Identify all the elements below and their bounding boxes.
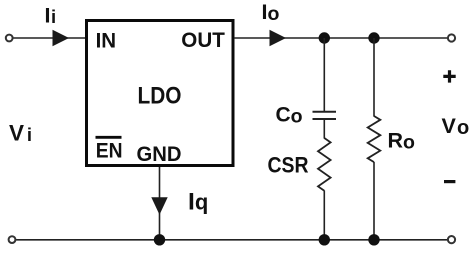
wire: CSR to ground rail xyxy=(323,191,325,241)
op-amp U1: LDO regulator block xyxy=(87,21,234,166)
wire: capacitor to CSR xyxy=(323,120,325,139)
wire: GND pin drop to ground rail xyxy=(159,167,161,239)
output terminal (right, top) xyxy=(448,34,455,41)
junction dot: GND branch on rail xyxy=(154,234,165,245)
wire: node A down to capacitor xyxy=(323,38,325,111)
ground terminal (right, bottom) xyxy=(448,236,455,243)
wire: LDO OUT to output terminal xyxy=(234,37,448,39)
svg-text:Vi: Vi xyxy=(9,121,32,146)
overline for EN xyxy=(96,136,122,139)
wire: input terminal to LDO IN pin xyxy=(13,37,85,39)
svg-text:Vo: Vo xyxy=(442,114,470,139)
resistor Ro (load) xyxy=(368,116,381,162)
junction dot: CSR branch on rail xyxy=(319,234,330,245)
resistor CSR (equivalent series resistance) xyxy=(318,138,331,191)
wire: Ro to ground rail xyxy=(373,162,375,240)
node B: output node junction (load branch) xyxy=(368,32,379,43)
ground rail wire xyxy=(16,239,449,241)
svg-text:EN: EN xyxy=(96,139,123,163)
svg-text:Co: Co xyxy=(276,103,303,127)
svg-text:CSR: CSR xyxy=(268,152,309,177)
svg-text:Ii: Ii xyxy=(45,3,57,27)
label + (positive output) xyxy=(443,70,455,82)
svg-text:Iq: Iq xyxy=(188,188,208,215)
wire: node B down to Ro xyxy=(373,38,375,117)
current arrow Io xyxy=(270,30,287,46)
current arrow Iq (quiescent) xyxy=(151,197,167,215)
current arrow Ii xyxy=(53,30,70,46)
capacitor Co xyxy=(313,111,337,113)
svg-text:GND: GND xyxy=(137,142,182,166)
node A: output node junction (capacitor branch) xyxy=(319,32,330,43)
svg-text:OUT: OUT xyxy=(181,28,225,52)
svg-text:IN: IN xyxy=(96,29,117,53)
svg-text:Ro: Ro xyxy=(388,129,416,154)
svg-text:Io: Io xyxy=(262,0,280,25)
input terminal (left, top) xyxy=(6,35,13,42)
junction dot: Ro branch on rail xyxy=(368,234,379,245)
ground terminal (left, bottom) xyxy=(9,236,16,243)
label - (negative output) xyxy=(444,180,455,183)
svg-text:LDO: LDO xyxy=(138,83,182,110)
